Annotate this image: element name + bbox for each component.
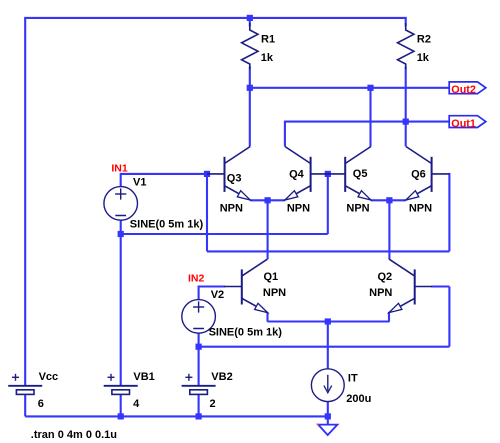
svg-text:SINE(0 5m 1k): SINE(0 5m 1k) <box>130 219 204 231</box>
label Q4 <box>289 169 305 181</box>
node Q5 Q6 emitter junction <box>386 197 392 203</box>
svg-text:NPN: NPN <box>369 287 392 299</box>
transistor Q5 <box>328 147 371 201</box>
svg-text:IT: IT <box>348 373 358 385</box>
label V1 <box>133 177 146 189</box>
label VB2 <box>211 371 232 383</box>
label Q2 NPN <box>369 287 392 299</box>
wire R2 top lead <box>405 17 407 27</box>
wire Q2 collector to emitter node <box>388 200 390 259</box>
wire V2 plus to Q1 base <box>199 286 226 300</box>
transistor Q4 <box>285 147 328 201</box>
node VB2 rail junction <box>196 413 202 419</box>
wire Q1 Q2 emitter row <box>268 320 390 322</box>
transistor Q3 <box>207 147 250 201</box>
voltage source V1 <box>104 187 138 221</box>
wire right up to Q6 base <box>448 173 450 252</box>
svg-text:IN1: IN1 <box>111 162 128 174</box>
wire R1 bottom lead <box>249 67 251 88</box>
label Q5 NPN <box>346 203 369 215</box>
node IN1 junction <box>204 171 210 177</box>
label Q5 <box>353 168 368 180</box>
battery VB2 <box>182 374 216 395</box>
wire V1 minus row <box>121 233 328 235</box>
svg-text:Vcc: Vcc <box>39 371 59 383</box>
svg-text:Out1: Out1 <box>451 118 476 130</box>
directive .tran <box>31 429 117 441</box>
node V2 minus junction <box>196 344 202 350</box>
wire Q5 collector <box>369 88 371 147</box>
svg-text:2: 2 <box>210 398 216 410</box>
svg-text:NPN: NPN <box>287 203 310 215</box>
svg-text:.tran 0 4m 0 0.1u: .tran 0 4m 0 0.1u <box>31 429 117 441</box>
wire VB2 bottom <box>198 394 200 416</box>
svg-text:NPN: NPN <box>346 203 369 215</box>
wire V2 minus lead <box>198 333 200 347</box>
svg-text:Q2: Q2 <box>378 271 393 283</box>
wire Q3 Q4 emitters <box>250 199 285 201</box>
label Q3 NPN <box>220 203 243 215</box>
battery VB1 <box>104 374 138 395</box>
node R2 Out1 junction <box>403 119 409 125</box>
label IT value 200u <box>346 393 371 405</box>
ground <box>317 424 338 435</box>
wire R1 top lead <box>249 18 251 27</box>
label Q2 <box>378 271 393 283</box>
svg-text:V2: V2 <box>211 289 224 301</box>
transistor Q2 <box>389 259 432 322</box>
svg-text:NPN: NPN <box>220 203 243 215</box>
svg-text:SINE(0 5m 1k): SINE(0 5m 1k) <box>209 327 283 339</box>
label IN2 <box>188 273 205 285</box>
wire IT to ground rail <box>327 402 329 416</box>
wire V1 minus lead <box>120 220 122 234</box>
wire Out2 line <box>250 87 451 89</box>
wire Q2 base <box>431 285 449 287</box>
resistor R2 <box>398 23 414 69</box>
label Vcc <box>39 371 59 383</box>
wire ground rail <box>25 415 328 417</box>
wire Vcc top lead <box>24 394 26 416</box>
wire emitter row to IT <box>327 322 329 369</box>
label R2 <box>417 34 431 46</box>
svg-text:NPN: NPN <box>263 287 286 299</box>
label V2 <box>211 289 224 301</box>
transistor Q6 <box>406 147 449 201</box>
wire R2 bottom lead <box>405 67 407 122</box>
current source IT <box>311 369 344 402</box>
svg-text:Q5: Q5 <box>353 168 368 180</box>
wire Q3 collector <box>249 88 251 147</box>
svg-text:200u: 200u <box>346 393 371 405</box>
node R1 top junction <box>247 15 253 21</box>
label Out2 <box>451 84 476 96</box>
label Q6 <box>411 169 426 181</box>
svg-text:6: 6 <box>38 398 44 410</box>
svg-text:VB2: VB2 <box>211 371 232 383</box>
wire VB1 bottom <box>120 394 122 416</box>
resistor R1 <box>242 23 258 69</box>
svg-text:1k: 1k <box>261 52 274 64</box>
wire ground stub <box>327 416 329 424</box>
svg-text:4: 4 <box>133 398 140 410</box>
node Q1 Q2 emitter junction <box>325 318 331 324</box>
node IT rail junction <box>325 413 331 419</box>
wire left Vcc rail vertical <box>24 18 26 386</box>
wire Q5 Q6 emitters <box>371 199 406 201</box>
svg-text:R1: R1 <box>261 34 275 46</box>
transistor Q1 <box>224 259 267 322</box>
svg-text:NPN: NPN <box>409 203 432 215</box>
node R1 Out2 junction <box>247 85 253 91</box>
label IT <box>348 373 358 385</box>
label V1 SINE <box>130 219 204 231</box>
svg-text:Q3: Q3 <box>227 173 242 185</box>
wire Q1 collector to emitter node <box>267 200 269 259</box>
label Vcc value 6 <box>38 398 44 410</box>
wire top Vcc rail <box>24 17 406 19</box>
wire VB2 top <box>198 347 200 386</box>
wire Q6 collector <box>405 122 407 147</box>
label V2 SINE <box>209 327 283 339</box>
wire V2 minus row <box>199 346 450 348</box>
wire IN1 down <box>206 174 208 252</box>
node Q3 Q4 emitter junction <box>265 197 271 203</box>
label VB2 value 2 <box>210 398 216 410</box>
svg-text:R2: R2 <box>417 34 431 46</box>
voltage source V2 <box>182 300 216 334</box>
wire VB1 top <box>120 234 122 386</box>
label Q3 <box>227 173 242 185</box>
wire right up to Q2 base <box>448 287 450 347</box>
svg-text:Q1: Q1 <box>264 271 279 283</box>
node Q5 Out2 junction <box>367 85 373 91</box>
label VB1 value 4 <box>133 398 140 410</box>
svg-text:IN2: IN2 <box>188 273 205 285</box>
label Q1 NPN <box>263 287 286 299</box>
label IN1 <box>111 162 128 174</box>
svg-text:VB1: VB1 <box>133 371 154 383</box>
node VB1 rail junction <box>118 413 124 419</box>
svg-text:1k: 1k <box>417 52 430 64</box>
wire Out1 line <box>285 121 451 123</box>
svg-text:Q6: Q6 <box>411 169 426 181</box>
wire Q4 Q5 base down <box>327 174 329 234</box>
port Out2 <box>449 82 486 94</box>
node Q4 Q5 base junction <box>325 171 331 177</box>
label R2 value 1k <box>417 52 430 64</box>
wire IN1 row to right <box>207 250 449 252</box>
svg-text:Q4: Q4 <box>289 169 305 181</box>
port Out1 <box>449 116 486 128</box>
node V1 minus junction <box>118 231 124 237</box>
label Q1 <box>264 271 279 283</box>
svg-text:V1: V1 <box>133 177 146 189</box>
label Q4 NPN <box>287 203 310 215</box>
label VB1 <box>133 371 154 383</box>
wire V1 plus to IN1 <box>121 173 207 187</box>
label Q6 NPN <box>409 203 432 215</box>
label Out1 <box>451 118 476 130</box>
battery Vcc <box>8 374 42 395</box>
wire Q4 collector <box>284 121 286 147</box>
svg-text:Out2: Out2 <box>451 84 476 96</box>
label R1 <box>261 34 275 46</box>
label R1 value 1k <box>261 52 274 64</box>
